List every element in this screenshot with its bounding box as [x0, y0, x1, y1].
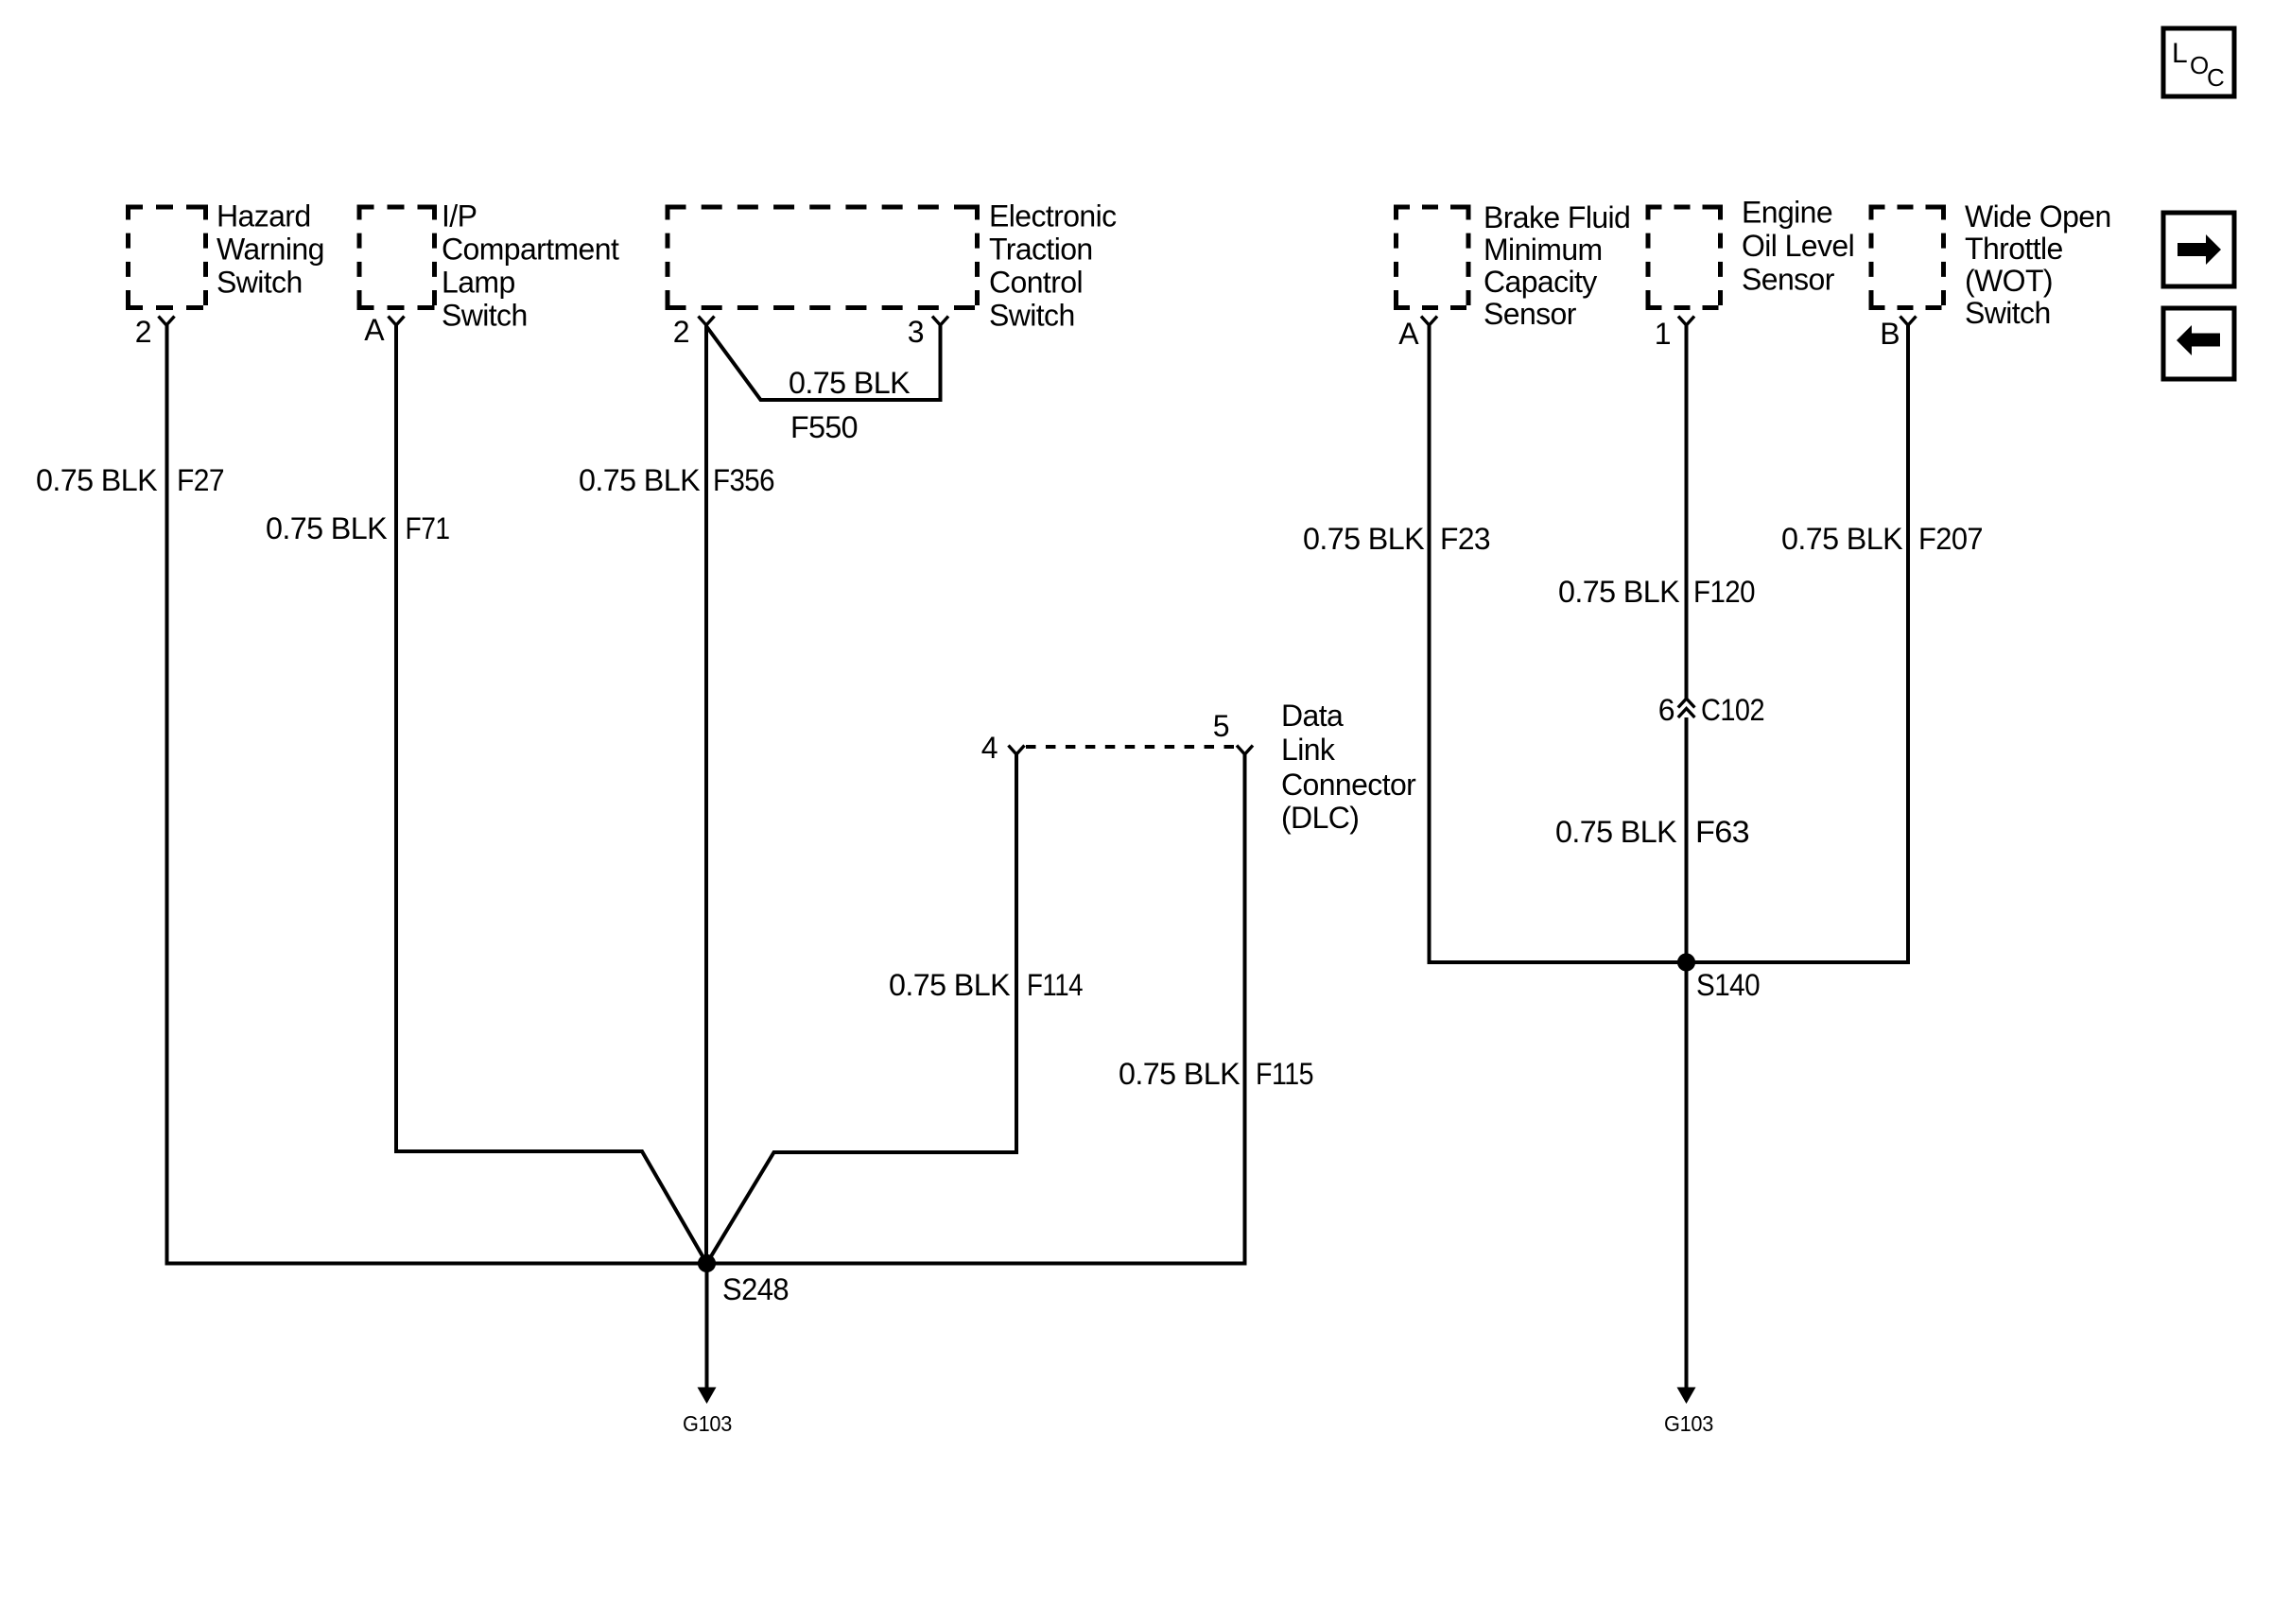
svg-text:Switch: Switch — [442, 299, 528, 333]
wire label 0.75 BLK F120 — [1558, 575, 1755, 609]
wire F114: DLC pin 4 down, left, diagonal to S248 — [707, 754, 1017, 1264]
legend: LOC box — [2163, 28, 2234, 96]
svg-text:F114: F114 — [1027, 968, 1083, 1002]
svg-text:(WOT): (WOT) — [1965, 264, 2053, 298]
label: Wide Open Throttle (WOT) Switch — [1965, 199, 2111, 330]
svg-text:Minimum: Minimum — [1484, 233, 1603, 267]
junction S140 — [1677, 953, 1695, 971]
svg-text:F71: F71 — [406, 511, 450, 545]
wire F115: DLC pin 5 down to S248 bus — [707, 754, 1245, 1264]
connector: Data Link Connector dashed body — [1026, 745, 1234, 749]
svg-text:6: 6 — [1658, 693, 1674, 727]
svg-text:F115: F115 — [1256, 1057, 1313, 1091]
svg-text:0.75 BLK: 0.75 BLK — [36, 463, 157, 497]
pin 2 arrow (Electronic Traction Control Switch) — [699, 317, 715, 326]
svg-text:Oil Level: Oil Level — [1742, 229, 1854, 263]
wire F71: I/P pin A down, right, diagonal to S248 — [396, 325, 707, 1264]
wire: S140 to ground arrow — [1685, 962, 1689, 1390]
legend: LOC letters — [2172, 38, 2224, 92]
svg-text:2: 2 — [673, 315, 689, 349]
wire F550 jumper: pin 2 diagonal to pin 3 — [706, 325, 941, 400]
legend: right-arrow box — [2163, 213, 2234, 286]
svg-text:S140: S140 — [1696, 968, 1760, 1002]
pin 5 arrow (DLC) — [1237, 746, 1253, 755]
svg-text:Engine: Engine — [1742, 196, 1832, 230]
component box: Engine Oil Level Sensor (dashed) — [1646, 205, 1724, 311]
svg-text:0.75 BLK: 0.75 BLK — [889, 968, 1010, 1002]
wire label 0.75 BLK F207 — [1781, 522, 1983, 556]
wire label 0.75 BLK F356 — [579, 463, 774, 497]
svg-text:Electronic: Electronic — [989, 199, 1117, 233]
legend: left-arrow glyph — [2177, 325, 2220, 355]
connector C102 chevron lower — [1678, 709, 1695, 718]
svg-text:F207: F207 — [1918, 522, 1983, 556]
pin B arrow (WOT switch) — [1900, 317, 1917, 326]
wire F356: ETC pin 2 down to S248 — [704, 325, 708, 1264]
svg-text:F23: F23 — [1440, 522, 1490, 556]
label: Engine Oil Level Sensor — [1742, 196, 1854, 297]
svg-text:Connector: Connector — [1281, 768, 1416, 802]
svg-text:Compartment: Compartment — [442, 233, 619, 267]
svg-text:4: 4 — [981, 731, 998, 765]
svg-text:Control: Control — [989, 266, 1083, 300]
wire: S248 to ground arrow — [705, 1264, 709, 1391]
wire label 0.75 BLK F63 — [1555, 815, 1749, 849]
label: Electronic Traction Control Switch — [989, 199, 1117, 333]
svg-text:0.75 BLK: 0.75 BLK — [1781, 522, 1902, 556]
component box: Hazard Warning Switch (dashed) — [126, 205, 208, 311]
svg-text:I/P: I/P — [442, 199, 477, 233]
svg-text:0.75 BLK: 0.75 BLK — [1303, 522, 1424, 556]
component box: Electronic Traction Control Switch (dashed) — [666, 205, 980, 311]
svg-text:(DLC): (DLC) — [1281, 801, 1359, 835]
svg-text:Capacity: Capacity — [1484, 265, 1597, 299]
svg-text:0.75 BLK: 0.75 BLK — [789, 366, 910, 400]
svg-text:A: A — [1398, 317, 1419, 351]
wire F207: WOT pin B down to S140 — [1687, 325, 1909, 962]
wire F23: Brake Fluid pin A down to S140 — [1430, 325, 1687, 962]
pin 4 arrow (DLC) — [1009, 746, 1025, 755]
svg-text:G103: G103 — [1664, 1411, 1713, 1436]
wire label 0.75 BLK F23 — [1303, 522, 1490, 556]
ground arrowhead (right G103) — [1677, 1388, 1696, 1405]
svg-text:0.75 BLK: 0.75 BLK — [1555, 815, 1676, 849]
label: Hazard Warning Switch — [217, 199, 324, 300]
svg-text:Wide Open: Wide Open — [1965, 199, 2111, 233]
svg-text:0.75 BLK: 0.75 BLK — [579, 463, 700, 497]
svg-text:O: O — [2190, 51, 2209, 79]
svg-text:A: A — [364, 313, 385, 347]
svg-text:0.75 BLK: 0.75 BLK — [1119, 1057, 1240, 1091]
component box: Wide Open Throttle (WOT) Switch (dashed) — [1869, 205, 1947, 311]
svg-text:B: B — [1880, 317, 1900, 351]
wire label 0.75 BLK F71 — [266, 511, 450, 545]
label: Data Link Connector (DLC) — [1281, 699, 1416, 835]
svg-text:2: 2 — [135, 315, 151, 349]
ground arrowhead (left G103) — [698, 1388, 717, 1405]
svg-text:Data: Data — [1281, 699, 1344, 733]
pin A arrow (I/P Compartment Lamp Switch) — [389, 317, 405, 326]
pin A arrow (Brake Fluid sensor) — [1421, 317, 1437, 326]
svg-text:Brake Fluid: Brake Fluid — [1484, 200, 1630, 234]
svg-text:Sensor: Sensor — [1484, 297, 1577, 331]
svg-text:Warning: Warning — [217, 233, 324, 267]
pin 2 arrow (Hazard Warning Switch) — [159, 317, 175, 326]
svg-text:F27: F27 — [177, 463, 224, 497]
svg-text:F63: F63 — [1695, 815, 1749, 849]
wire label 0.75 BLK F115 — [1119, 1057, 1313, 1091]
svg-text:3: 3 — [908, 315, 924, 349]
component box: Brake Fluid Minimum Capacity Sensor (dashed) — [1394, 205, 1471, 311]
svg-text:1: 1 — [1655, 317, 1671, 351]
svg-text:F120: F120 — [1693, 575, 1755, 609]
connector C102 chevron upper — [1678, 699, 1695, 708]
svg-text:5: 5 — [1213, 709, 1229, 743]
svg-text:G103: G103 — [683, 1411, 732, 1436]
svg-text:C: C — [2207, 63, 2224, 92]
wire F120: Engine pin 1 down to C102 — [1685, 325, 1689, 700]
pin 1 arrow (Engine Oil Level Sensor) — [1678, 317, 1694, 326]
wire label 0.75 BLK F114 — [889, 968, 1083, 1002]
component box: I/P Compartment Lamp Switch (dashed) — [357, 205, 438, 311]
label: Brake Fluid Minimum Capacity Sensor — [1484, 200, 1630, 331]
svg-text:L: L — [2172, 38, 2187, 69]
legend: right-arrow glyph — [2178, 234, 2221, 265]
svg-text:F356: F356 — [713, 463, 774, 497]
legend: left-arrow box — [2163, 308, 2234, 379]
label: I/P Compartment Lamp Switch — [442, 199, 619, 333]
svg-text:S248: S248 — [722, 1272, 789, 1306]
wire F27: Hazard pin 2 down to S248 bus — [167, 325, 707, 1264]
svg-text:Switch: Switch — [217, 266, 303, 300]
wire F63: C102 down to S140 — [1685, 717, 1689, 962]
wire label 0.75 BLK F27 — [36, 463, 224, 497]
svg-text:Switch: Switch — [1965, 296, 2051, 330]
svg-text:Link: Link — [1281, 733, 1336, 767]
svg-text:Lamp: Lamp — [442, 266, 515, 300]
svg-text:Throttle: Throttle — [1965, 232, 2063, 266]
svg-text:0.75 BLK: 0.75 BLK — [266, 511, 387, 545]
svg-text:F550: F550 — [790, 410, 858, 444]
pin 3 arrow (Electronic Traction Control Switch) — [932, 317, 948, 326]
svg-text:C102: C102 — [1701, 693, 1764, 727]
svg-text:0.75 BLK: 0.75 BLK — [1558, 575, 1679, 609]
svg-text:Switch: Switch — [989, 299, 1075, 333]
svg-text:Traction: Traction — [989, 233, 1093, 267]
svg-text:Sensor: Sensor — [1742, 263, 1835, 297]
svg-text:Hazard: Hazard — [217, 199, 311, 233]
junction S248 — [698, 1254, 716, 1272]
